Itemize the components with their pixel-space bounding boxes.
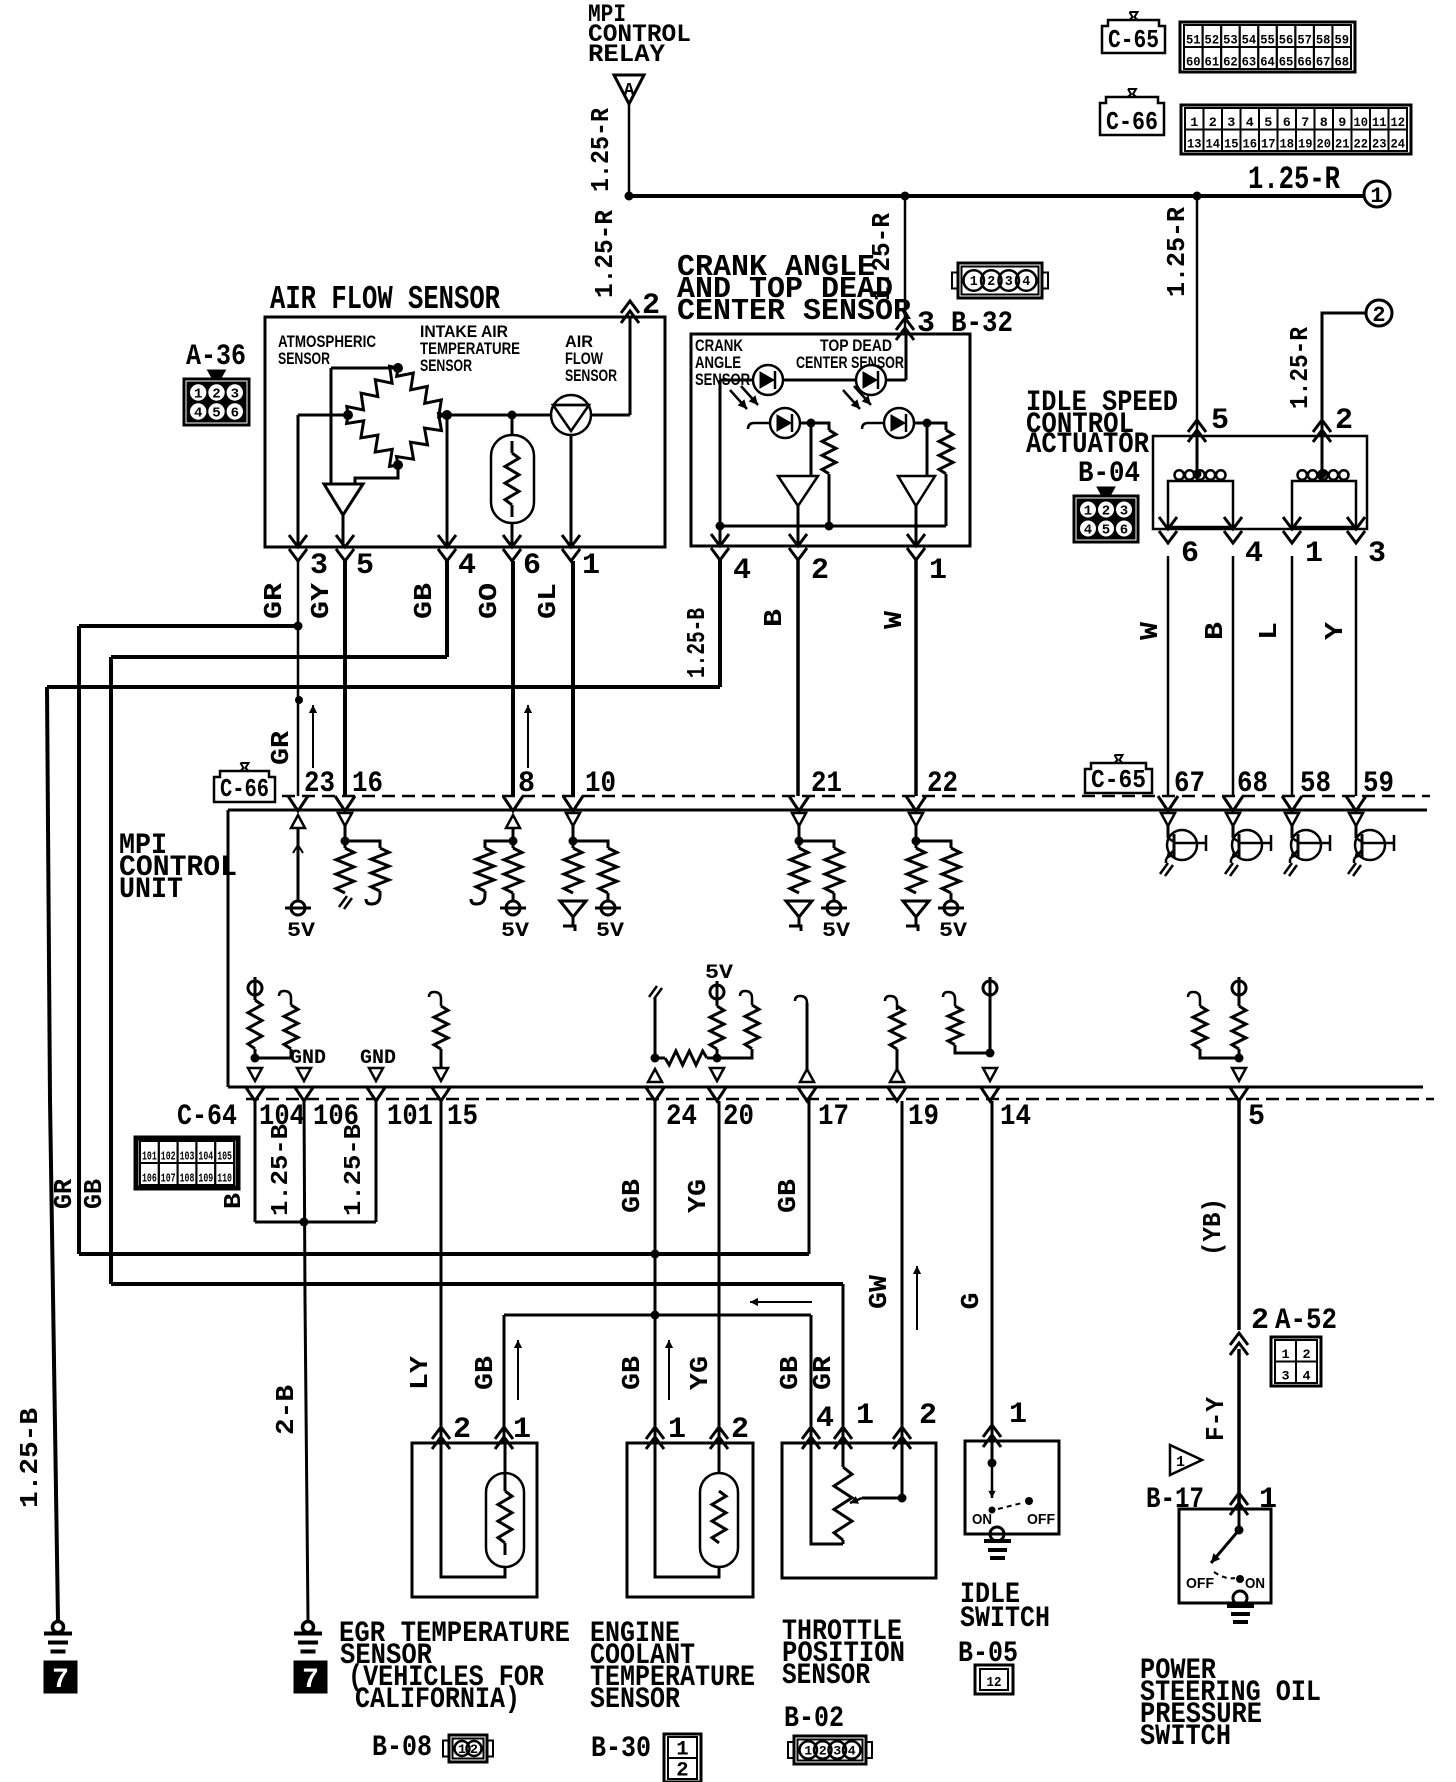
svg-text:17: 17 [1261, 137, 1276, 152]
svg-text:SENSOR: SENSOR [278, 349, 330, 368]
svg-text:24: 24 [1391, 137, 1406, 152]
svg-text:7: 7 [1301, 115, 1309, 130]
svg-text:GND: GND [290, 1047, 326, 1070]
svg-text:2: 2 [731, 1413, 749, 1447]
svg-text:SENSOR: SENSOR [565, 366, 617, 385]
svg-text:GB: GB [773, 1179, 803, 1213]
svg-text:1.25-R: 1.25-R [1285, 327, 1315, 409]
svg-text:3: 3 [231, 387, 239, 403]
svg-text:GB: GB [775, 1356, 805, 1390]
svg-text:12: 12 [987, 1675, 1002, 1691]
svg-text:60: 60 [1186, 55, 1201, 70]
svg-text:3: 3 [1281, 1369, 1289, 1384]
svg-text:1: 1 [1281, 1347, 1289, 1362]
svg-text:58: 58 [1300, 767, 1331, 801]
svg-text:RELAY: RELAY [588, 40, 665, 69]
svg-text:GW: GW [864, 1275, 894, 1309]
svg-text:5V: 5V [822, 920, 850, 943]
svg-text:7: 7 [302, 1665, 319, 1696]
svg-text:2: 2 [919, 1399, 937, 1433]
svg-text:15: 15 [447, 1100, 478, 1134]
svg-text:1: 1 [194, 387, 202, 403]
svg-text:A-36: A-36 [186, 340, 246, 374]
svg-text:W: W [879, 611, 909, 629]
svg-text:GB: GB [617, 1179, 647, 1213]
svg-text:2-B: 2-B [271, 1385, 301, 1435]
svg-text:1.25-B: 1.25-B [268, 1124, 295, 1216]
svg-text:2: 2 [1251, 1304, 1269, 1338]
svg-text:GR: GR [808, 1356, 838, 1390]
svg-text:4: 4 [1022, 274, 1030, 290]
svg-text:2: 2 [811, 554, 829, 588]
svg-text:1: 1 [1305, 537, 1323, 571]
svg-text:C-64: C-64 [177, 1100, 237, 1134]
svg-text:3: 3 [1368, 537, 1386, 571]
svg-text:101: 101 [387, 1100, 433, 1134]
svg-text:23: 23 [1372, 137, 1387, 152]
svg-text:54: 54 [1242, 33, 1257, 48]
svg-text:GB: GB [409, 583, 439, 619]
svg-text:21: 21 [1335, 137, 1350, 152]
svg-text:W: W [1135, 622, 1165, 640]
svg-text:C-66: C-66 [220, 774, 269, 804]
svg-text:12: 12 [1391, 115, 1406, 130]
svg-text:2: 2 [1209, 115, 1217, 130]
svg-text:C-66: C-66 [1106, 107, 1158, 137]
svg-text:56: 56 [1279, 33, 1294, 48]
svg-text:20: 20 [723, 1100, 754, 1134]
svg-text:11: 11 [1372, 115, 1387, 130]
svg-text:9: 9 [1338, 115, 1346, 130]
svg-text:1.25-B: 1.25-B [682, 608, 712, 678]
svg-text:Y: Y [1320, 622, 1350, 640]
svg-text:57: 57 [1297, 33, 1312, 48]
svg-text:1: 1 [458, 1742, 466, 1757]
svg-text:21: 21 [811, 767, 842, 801]
svg-text:64: 64 [1260, 55, 1275, 70]
svg-text:SENSOR: SENSOR [420, 356, 472, 375]
svg-text:2: 2 [676, 1760, 688, 1782]
svg-text:GND: GND [360, 1047, 396, 1070]
svg-text:B-04: B-04 [1078, 457, 1140, 491]
svg-text:1: 1 [1009, 1398, 1027, 1432]
svg-text:GB: GB [79, 1179, 109, 1209]
svg-text:22: 22 [927, 767, 958, 801]
svg-text:1.25-R: 1.25-R [586, 108, 616, 192]
svg-text:1: 1 [1084, 504, 1092, 520]
svg-text:5V: 5V [705, 962, 733, 985]
svg-text:1.25-B: 1.25-B [341, 1124, 368, 1216]
svg-text:OFF: OFF [1027, 1511, 1055, 1528]
svg-text:5: 5 [212, 406, 220, 422]
svg-text:1: 1 [1259, 1483, 1277, 1517]
svg-text:6: 6 [231, 406, 239, 422]
svg-text:B-32: B-32 [951, 307, 1013, 341]
svg-text:B-02: B-02 [784, 1702, 844, 1736]
svg-text:14: 14 [1206, 137, 1221, 152]
svg-text:4: 4 [1302, 1369, 1310, 1384]
svg-text:55: 55 [1260, 33, 1275, 48]
svg-text:2: 2 [1302, 1347, 1310, 1362]
svg-text:UNIT: UNIT [119, 873, 183, 907]
svg-text:SWITCH: SWITCH [960, 1602, 1050, 1636]
svg-text:16: 16 [1243, 137, 1258, 152]
svg-text:2: 2 [1335, 404, 1353, 438]
svg-text:4: 4 [733, 554, 751, 588]
svg-text:C-65: C-65 [1091, 765, 1146, 795]
svg-text:65: 65 [1279, 55, 1294, 70]
svg-text:GL: GL [533, 583, 563, 619]
svg-text:5: 5 [1102, 523, 1110, 539]
svg-text:B-17: B-17 [1146, 1483, 1204, 1517]
svg-text:102: 102 [161, 1150, 176, 1164]
svg-text:4: 4 [1084, 523, 1092, 539]
svg-text:2: 2 [987, 274, 995, 290]
svg-text:101: 101 [142, 1150, 157, 1164]
svg-text:4: 4 [816, 1402, 834, 1436]
svg-text:1: 1 [804, 1744, 812, 1759]
svg-text:17: 17 [818, 1100, 849, 1134]
svg-text:B-08: B-08 [372, 1731, 432, 1765]
svg-text:110: 110 [217, 1172, 232, 1186]
svg-text:52: 52 [1205, 33, 1220, 48]
svg-text:15: 15 [1224, 137, 1239, 152]
svg-text:16: 16 [352, 767, 383, 801]
svg-text:GR: GR [266, 731, 296, 765]
svg-text:B-30: B-30 [591, 1732, 651, 1766]
svg-text:L: L [1254, 622, 1284, 640]
svg-text:104: 104 [198, 1150, 213, 1164]
svg-text:1: 1 [1370, 184, 1383, 209]
svg-text:4: 4 [848, 1744, 856, 1759]
svg-text:109: 109 [198, 1172, 213, 1186]
svg-text:3: 3 [917, 307, 935, 341]
svg-text:GR: GR [49, 1179, 79, 1209]
svg-text:C-65: C-65 [1108, 25, 1159, 55]
svg-text:3: 3 [310, 549, 328, 583]
svg-text:OFF: OFF [1186, 1575, 1214, 1592]
svg-text:CALIFORNIA): CALIFORNIA) [355, 1683, 520, 1717]
svg-text:1: 1 [970, 274, 978, 290]
svg-text:B: B [221, 1193, 248, 1209]
svg-text:3: 3 [833, 1744, 841, 1759]
svg-text:108: 108 [180, 1172, 195, 1186]
svg-text:5V: 5V [939, 920, 967, 943]
svg-text:(YB): (YB) [1198, 1198, 1228, 1256]
svg-text:1: 1 [1190, 115, 1198, 130]
svg-text:LY: LY [405, 1356, 435, 1390]
svg-text:GR: GR [259, 583, 289, 619]
svg-text:2: 2 [212, 387, 220, 403]
svg-text:18: 18 [1280, 137, 1295, 152]
svg-text:5: 5 [356, 549, 374, 583]
svg-text:CENTER SENSOR: CENTER SENSOR [677, 294, 911, 329]
svg-text:2: 2 [819, 1744, 827, 1759]
svg-text:SENSOR: SENSOR [590, 1683, 680, 1717]
svg-text:AIR FLOW SENSOR: AIR FLOW SENSOR [270, 281, 500, 318]
svg-text:1.25-B: 1.25-B [15, 1408, 45, 1508]
svg-text:68: 68 [1334, 55, 1349, 70]
svg-text:F-Y: F-Y [1201, 1397, 1231, 1441]
svg-text:22: 22 [1354, 137, 1369, 152]
svg-text:YG: YG [685, 1356, 715, 1390]
svg-text:1: 1 [513, 1413, 531, 1447]
svg-text:4: 4 [1246, 115, 1254, 130]
svg-text:1: 1 [1176, 1454, 1185, 1471]
svg-text:3: 3 [1005, 274, 1013, 290]
svg-text:10: 10 [585, 767, 616, 801]
svg-text:24: 24 [666, 1100, 697, 1134]
svg-text:ON: ON [972, 1511, 992, 1528]
svg-text:GY: GY [306, 583, 336, 619]
svg-text:62: 62 [1223, 55, 1238, 70]
svg-text:19: 19 [1298, 137, 1313, 152]
svg-text:19: 19 [908, 1100, 939, 1134]
svg-text:23: 23 [304, 767, 335, 801]
svg-text:5: 5 [1211, 404, 1229, 438]
svg-text:YG: YG [683, 1179, 713, 1213]
svg-text:1: 1 [668, 1413, 686, 1447]
svg-text:67: 67 [1316, 55, 1331, 70]
svg-text:66: 66 [1297, 55, 1312, 70]
svg-text:2: 2 [1372, 303, 1385, 328]
svg-text:GB: GB [470, 1356, 500, 1390]
svg-text:2: 2 [453, 1413, 471, 1447]
svg-text:5V: 5V [596, 920, 624, 943]
svg-text:107: 107 [161, 1172, 176, 1186]
svg-text:106: 106 [142, 1172, 157, 1186]
svg-text:59: 59 [1334, 33, 1349, 48]
svg-text:1: 1 [856, 1399, 874, 1433]
svg-text:5V: 5V [501, 920, 529, 943]
svg-text:2: 2 [642, 289, 660, 323]
svg-text:6: 6 [1181, 537, 1199, 571]
svg-text:51: 51 [1186, 33, 1201, 48]
svg-text:67: 67 [1174, 767, 1205, 801]
svg-text:3: 3 [1120, 504, 1128, 520]
svg-text:5: 5 [1264, 115, 1272, 130]
svg-text:3: 3 [1227, 115, 1235, 130]
svg-text:53: 53 [1223, 33, 1238, 48]
svg-text:7: 7 [52, 1665, 69, 1696]
svg-text:63: 63 [1242, 55, 1257, 70]
svg-text:4: 4 [194, 406, 202, 422]
svg-text:CENTER SENSOR: CENTER SENSOR [796, 353, 904, 372]
svg-text:GB: GB [617, 1356, 647, 1390]
svg-text:20: 20 [1317, 137, 1332, 152]
svg-text:10: 10 [1354, 115, 1369, 130]
svg-text:1.25-R: 1.25-R [590, 210, 620, 298]
svg-text:61: 61 [1205, 55, 1220, 70]
svg-text:13: 13 [1187, 137, 1202, 152]
svg-text:5V: 5V [287, 920, 315, 943]
svg-text:59: 59 [1363, 767, 1394, 801]
svg-text:G: G [956, 1293, 986, 1310]
svg-text:SENSOR: SENSOR [782, 1659, 870, 1693]
svg-text:103: 103 [180, 1150, 195, 1164]
svg-text:2: 2 [1102, 504, 1110, 520]
svg-text:6: 6 [1283, 115, 1291, 130]
svg-text:8: 8 [518, 767, 535, 801]
svg-text:5: 5 [1248, 1100, 1265, 1134]
svg-text:GO: GO [474, 583, 504, 619]
svg-text:6: 6 [523, 549, 541, 583]
svg-text:4: 4 [458, 549, 476, 583]
svg-text:B: B [1200, 622, 1230, 640]
svg-text:1: 1 [582, 549, 600, 583]
svg-text:1.25-R: 1.25-R [1248, 161, 1341, 198]
svg-text:58: 58 [1316, 33, 1331, 48]
svg-text:14: 14 [1000, 1100, 1031, 1134]
svg-text:4: 4 [1245, 537, 1263, 571]
svg-text:2: 2 [470, 1742, 478, 1757]
svg-text:1: 1 [929, 554, 947, 588]
svg-text:ON: ON [1245, 1575, 1265, 1592]
svg-text:SWITCH: SWITCH [1140, 1720, 1231, 1754]
svg-text:105: 105 [217, 1150, 232, 1164]
svg-text:B: B [759, 609, 789, 627]
svg-text:1.25-R: 1.25-R [1162, 207, 1192, 297]
svg-text:6: 6 [1120, 523, 1128, 539]
svg-text:A: A [624, 81, 635, 101]
svg-text:8: 8 [1320, 115, 1328, 130]
svg-text:A-52: A-52 [1275, 1304, 1337, 1338]
